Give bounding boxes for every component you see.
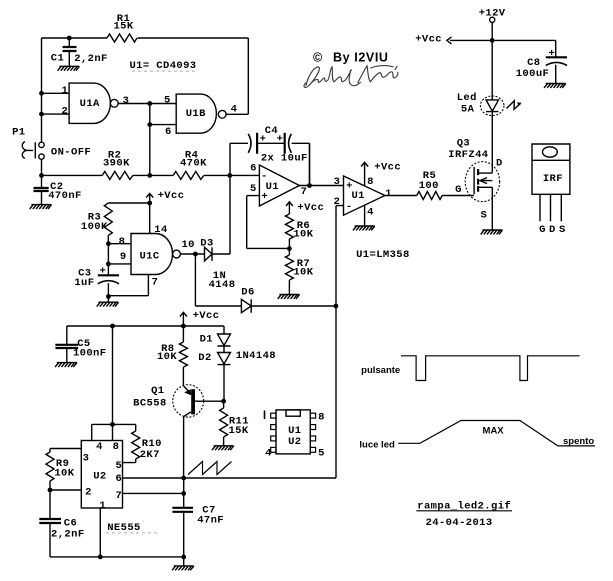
svg-text:spento: spento — [563, 436, 594, 447]
svg-text:ON-OFF: ON-OFF — [51, 147, 91, 159]
svg-text:6: 6 — [165, 126, 172, 138]
svg-text:1: 1 — [61, 85, 68, 97]
svg-text:4148: 4148 — [209, 279, 236, 291]
svg-text:100nF: 100nF — [73, 348, 107, 360]
svg-text:10K: 10K — [293, 229, 313, 241]
svg-text:9: 9 — [120, 251, 127, 263]
svg-text:7: 7 — [115, 490, 122, 502]
svg-text:4: 4 — [231, 103, 238, 115]
svg-text:6: 6 — [115, 473, 122, 485]
svg-text:2: 2 — [61, 106, 68, 118]
svg-text:10K: 10K — [157, 351, 177, 363]
svg-text:3: 3 — [334, 176, 341, 188]
svg-text:470K: 470K — [180, 158, 207, 170]
svg-text:10K: 10K — [293, 267, 313, 279]
svg-text:5: 5 — [250, 183, 257, 195]
svg-text:+Vcc: +Vcc — [374, 162, 401, 174]
svg-text:U1: U1 — [351, 190, 364, 202]
svg-text:2,2nF: 2,2nF — [74, 53, 108, 65]
svg-text:100: 100 — [419, 180, 439, 192]
svg-text:U1= CD4093: U1= CD4093 — [129, 60, 196, 72]
svg-text:G: G — [455, 184, 462, 196]
svg-text:8: 8 — [119, 236, 126, 248]
svg-text:+: + — [549, 48, 556, 60]
svg-text:10: 10 — [181, 239, 194, 251]
svg-text:24-04-2013: 24-04-2013 — [426, 517, 493, 529]
svg-text:15K: 15K — [113, 21, 133, 33]
svg-text:8: 8 — [367, 176, 374, 188]
svg-text:U2: U2 — [288, 436, 301, 448]
svg-text:4: 4 — [96, 441, 103, 453]
svg-text:-: - — [346, 201, 353, 213]
svg-text:D1: D1 — [200, 334, 213, 346]
svg-text:2,2nF: 2,2nF — [51, 529, 85, 541]
svg-text:By I2VIU: By I2VIU — [333, 51, 389, 65]
svg-text:U1B: U1B — [186, 108, 206, 120]
svg-text:C8: C8 — [527, 57, 540, 69]
svg-text:-: - — [261, 171, 268, 183]
svg-text:IRFZ44: IRFZ44 — [448, 149, 488, 161]
svg-text:5: 5 — [115, 460, 122, 472]
svg-text:rampa_led2.gif: rampa_led2.gif — [417, 501, 511, 513]
svg-text:D3: D3 — [200, 237, 213, 249]
svg-text:7: 7 — [301, 186, 308, 198]
svg-text:390K: 390K — [103, 158, 130, 170]
svg-text:5: 5 — [318, 448, 325, 460]
svg-text:100uF: 100uF — [516, 68, 550, 80]
svg-text:2: 2 — [85, 487, 92, 499]
svg-text:100K: 100K — [81, 221, 108, 233]
svg-text:Led: Led — [457, 92, 477, 104]
svg-text:8: 8 — [113, 441, 120, 453]
svg-text:+: + — [346, 181, 353, 193]
svg-text:D2: D2 — [198, 352, 211, 364]
svg-text:5: 5 — [164, 95, 171, 107]
svg-text:©: © — [313, 51, 323, 65]
svg-text:3: 3 — [123, 95, 130, 107]
svg-text:4: 4 — [265, 448, 272, 460]
svg-text:P1: P1 — [12, 127, 25, 139]
svg-text:G: G — [539, 224, 546, 236]
svg-text:NE555: NE555 — [107, 522, 141, 534]
svg-text:+Vcc: +Vcc — [158, 190, 185, 202]
svg-text:15K: 15K — [228, 425, 248, 437]
svg-text:+: + — [260, 134, 267, 146]
svg-text:8: 8 — [318, 412, 325, 424]
svg-text:1: 1 — [385, 188, 392, 200]
svg-text:1uF: 1uF — [74, 277, 94, 289]
svg-text:pulsante: pulsante — [361, 365, 400, 376]
svg-text:luce led: luce led — [359, 439, 395, 450]
svg-text:D6: D6 — [241, 287, 254, 299]
svg-text:U2: U2 — [93, 471, 106, 483]
svg-text:IRF: IRF — [543, 173, 563, 185]
svg-text:+: + — [261, 191, 268, 203]
svg-text:D: D — [496, 157, 503, 169]
svg-text:U1=LM358: U1=LM358 — [356, 249, 410, 261]
svg-text:1: 1 — [99, 500, 106, 512]
svg-text:Q1: Q1 — [151, 385, 164, 397]
svg-text:5A: 5A — [461, 104, 475, 116]
svg-text:S: S — [481, 210, 488, 222]
svg-text:7: 7 — [152, 276, 159, 288]
svg-text:+Vcc: +Vcc — [193, 310, 220, 322]
svg-text:470nF: 470nF — [48, 190, 82, 202]
svg-text:47nF: 47nF — [197, 515, 224, 527]
svg-text:6: 6 — [250, 163, 257, 175]
svg-text:4: 4 — [367, 206, 374, 218]
svg-text:2x 10uF: 2x 10uF — [261, 153, 308, 165]
svg-text:3: 3 — [83, 453, 90, 465]
svg-text:Q3: Q3 — [457, 138, 470, 150]
svg-text:S: S — [559, 224, 566, 236]
svg-text:2: 2 — [334, 196, 341, 208]
svg-text:1N4148: 1N4148 — [236, 350, 276, 362]
svg-text:BC558: BC558 — [133, 398, 167, 410]
svg-text:+Vcc: +Vcc — [415, 34, 442, 46]
svg-text:MAX: MAX — [483, 425, 505, 436]
svg-text:+: + — [277, 134, 284, 146]
svg-text:+12V: +12V — [479, 8, 506, 20]
svg-text:10K: 10K — [54, 468, 74, 480]
svg-text:C1: C1 — [51, 53, 64, 65]
svg-text:D: D — [549, 224, 556, 236]
svg-text:2K7: 2K7 — [140, 449, 160, 461]
svg-text:14: 14 — [154, 224, 167, 236]
svg-text:+Vcc: +Vcc — [297, 202, 324, 214]
svg-text:+: + — [99, 266, 106, 278]
svg-text:U1C: U1C — [139, 250, 159, 262]
svg-text:U1A: U1A — [80, 98, 100, 110]
